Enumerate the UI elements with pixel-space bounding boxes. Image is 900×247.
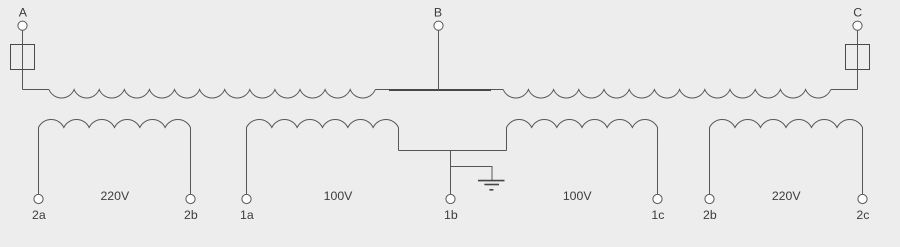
terminal 2b — [186, 194, 195, 203]
svg-text:2b: 2b — [703, 208, 717, 222]
svg-text:2c: 2c — [856, 208, 869, 222]
fuse FC — [846, 45, 870, 70]
terminal 1b — [446, 194, 455, 203]
svg-text:1c: 1c — [651, 208, 664, 222]
fuse FA — [11, 45, 35, 70]
terminal 2c — [858, 194, 867, 203]
wire C horizontal — [831, 89, 858, 91]
wire ground branch — [451, 167, 493, 181]
winding S1 2a-2b — [39, 120, 191, 195]
svg-text:2b: 2b — [184, 208, 198, 222]
terminal 1c — [653, 194, 662, 203]
svg-text:100V: 100V — [324, 189, 354, 203]
winding S3 1b-1c — [507, 120, 658, 195]
wire C vertical — [857, 30, 859, 89]
wire bus 1b — [399, 150, 507, 152]
svg-text:1b: 1b — [444, 208, 458, 222]
terminal A — [18, 21, 27, 30]
ground — [478, 181, 505, 190]
wire B tap — [438, 30, 440, 90]
wire A vertical — [22, 30, 24, 89]
svg-text:1a: 1a — [240, 208, 254, 222]
terminal B — [434, 21, 443, 30]
terminal 2b right — [705, 194, 714, 203]
svg-text:220V: 220V — [100, 189, 130, 203]
wire 1b tap — [450, 151, 452, 195]
node B bus — [389, 89, 491, 91]
terminal 1a — [242, 194, 251, 203]
svg-text:C: C — [853, 5, 862, 19]
terminal C — [853, 21, 862, 30]
wire A horizontal — [23, 89, 50, 91]
svg-text:100V: 100V — [563, 189, 593, 203]
terminal 2a — [34, 194, 43, 203]
svg-text:B: B — [434, 5, 442, 19]
winding P left half — [49, 90, 375, 99]
svg-text:2a: 2a — [32, 208, 46, 222]
winding P right half — [503, 90, 831, 98]
svg-text:A: A — [19, 5, 28, 19]
svg-text:220V: 220V — [772, 189, 802, 203]
winding S2 1a-1b — [247, 120, 399, 195]
winding S4 2b-2c — [710, 119, 863, 194]
wire center straight — [375, 89, 503, 91]
